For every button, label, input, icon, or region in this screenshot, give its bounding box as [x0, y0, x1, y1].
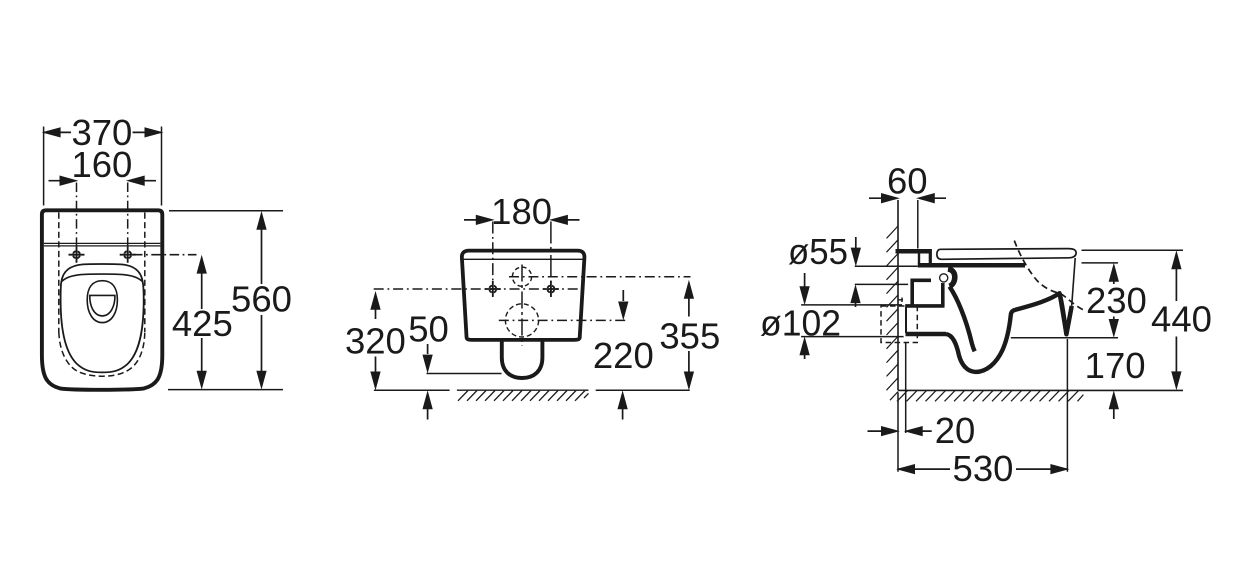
inner ceramic dashed bottom curve: [59, 332, 145, 376]
bottom baseline extension line: [168, 389, 283, 391]
dimension 20 arrows: [868, 430, 932, 432]
bracket step (thick): [905, 279, 944, 307]
floor line and right extension: [898, 389, 1183, 391]
dimension 425 line and arrows: [201, 259, 203, 387]
horizontal centerline lower circle: [499, 319, 625, 321]
dimension 160 centerlines down to crosses: [77, 183, 128, 263]
dimension 180 arrows: [464, 219, 580, 221]
dimension 560 top extension line: [169, 210, 283, 212]
svg-text:560: 560: [231, 279, 292, 320]
flange step vertical: [918, 254, 920, 265]
vertical centerline through circles: [521, 265, 523, 347]
lower inlet block (thick): [906, 332, 947, 336]
dimension ø55 arrows: [855, 237, 857, 250]
dimension 440 line and arrows: [1175, 255, 1177, 387]
drain pipe dashed rectangle: [881, 306, 917, 343]
drain pipe hub dashed lines: [899, 298, 907, 305]
svg-text:425: 425: [172, 303, 233, 344]
svg-text:355: 355: [659, 315, 720, 356]
svg-text:230: 230: [1086, 280, 1147, 321]
hinge pin circle: [940, 274, 948, 282]
V notch fill: [1060, 293, 1072, 334]
horizontal centerline upper circle: [509, 276, 691, 278]
svg-text:20: 20: [935, 410, 976, 451]
seat edge line (front): [463, 258, 584, 260]
svg-text:530: 530: [953, 448, 1014, 489]
toilet body outline (front view): [462, 251, 585, 340]
trap and bowl front profile (thick): [946, 293, 1072, 372]
centerline from cross to 425 dimension: [133, 254, 197, 256]
dimension 230 line and arrows: [1113, 267, 1115, 335]
dimension ø102 arrows: [804, 273, 806, 287]
lower outlet dashed circle: [505, 304, 538, 337]
dimension 60 arrows: [869, 197, 946, 199]
trap outlet (front): [502, 341, 543, 379]
seat cover open dashed curve: [1014, 241, 1083, 310]
flange right edge: [929, 253, 932, 264]
dimension 220 arrows: [622, 290, 624, 301]
right extension lines (side): [1011, 250, 1183, 338]
dimension 355 line and arrows: [688, 284, 690, 388]
upper fixing dashed circle: [512, 267, 531, 286]
floor baseline segments (front): [374, 389, 690, 391]
below floor extension lines (20 / 530): [898, 339, 1067, 472]
fixing cross left: [69, 247, 85, 263]
dimension ø55 reference lines: [855, 266, 918, 284]
svg-text:160: 160: [71, 144, 132, 185]
seat and cover (side): [937, 249, 1076, 260]
seat hinge double line: [44, 243, 161, 246]
svg-text:ø55: ø55: [788, 231, 848, 272]
dimension 180 centerlines: [492, 222, 494, 297]
svg-text:220: 220: [593, 335, 654, 376]
fixing cross left (front): [485, 281, 501, 297]
dimension 370 extension lines: [44, 127, 162, 206]
dimension 60 extension line: [917, 200, 919, 249]
seat outer outline: [61, 264, 144, 372]
svg-text:320: 320: [345, 320, 406, 361]
dimension 530 line and arrows: [898, 468, 1067, 470]
bracket to block connector: [905, 307, 907, 333]
dimension 160 arrows: [49, 180, 157, 182]
svg-text:ø102: ø102: [760, 302, 841, 343]
svg-text:440: 440: [1151, 298, 1212, 339]
horizontal centerline through crosses (front): [374, 288, 584, 290]
inner ceramic dashed outline: [59, 213, 145, 333]
dimension 320 line and arrows: [375, 295, 377, 387]
hinge block: [948, 269, 955, 286]
bowl inner back curve (thick): [950, 287, 975, 352]
svg-text:60: 60: [887, 161, 928, 202]
svg-text:50: 50: [408, 309, 449, 350]
back edge thin line: [1072, 258, 1076, 306]
svg-text:180: 180: [491, 191, 552, 232]
50 reference line: [427, 373, 502, 375]
dimension 50 arrows: [427, 344, 429, 354]
flush opening outer egg: [87, 281, 117, 323]
seat back edge wavy line: [61, 274, 142, 282]
wall line: [897, 200, 899, 390]
mounting flange and rim (thick profile): [896, 251, 1026, 265]
floor hatch (side): [897, 391, 1083, 402]
fixing cross right: [120, 247, 136, 263]
dimension 370 line and arrows: [44, 131, 162, 133]
svg-text:170: 170: [1085, 345, 1146, 386]
dimension 170 below-floor arrow: [1113, 403, 1115, 419]
dimension 560 line and arrows: [261, 214, 263, 386]
wall hatch: [887, 226, 899, 400]
fixing cross right (front): [543, 281, 559, 297]
floor hatch (front): [457, 390, 589, 401]
flush opening inner shape: [90, 295, 115, 316]
dimension ø102 reference lines: [801, 305, 904, 337]
toilet body outline (top view): [42, 210, 162, 389]
